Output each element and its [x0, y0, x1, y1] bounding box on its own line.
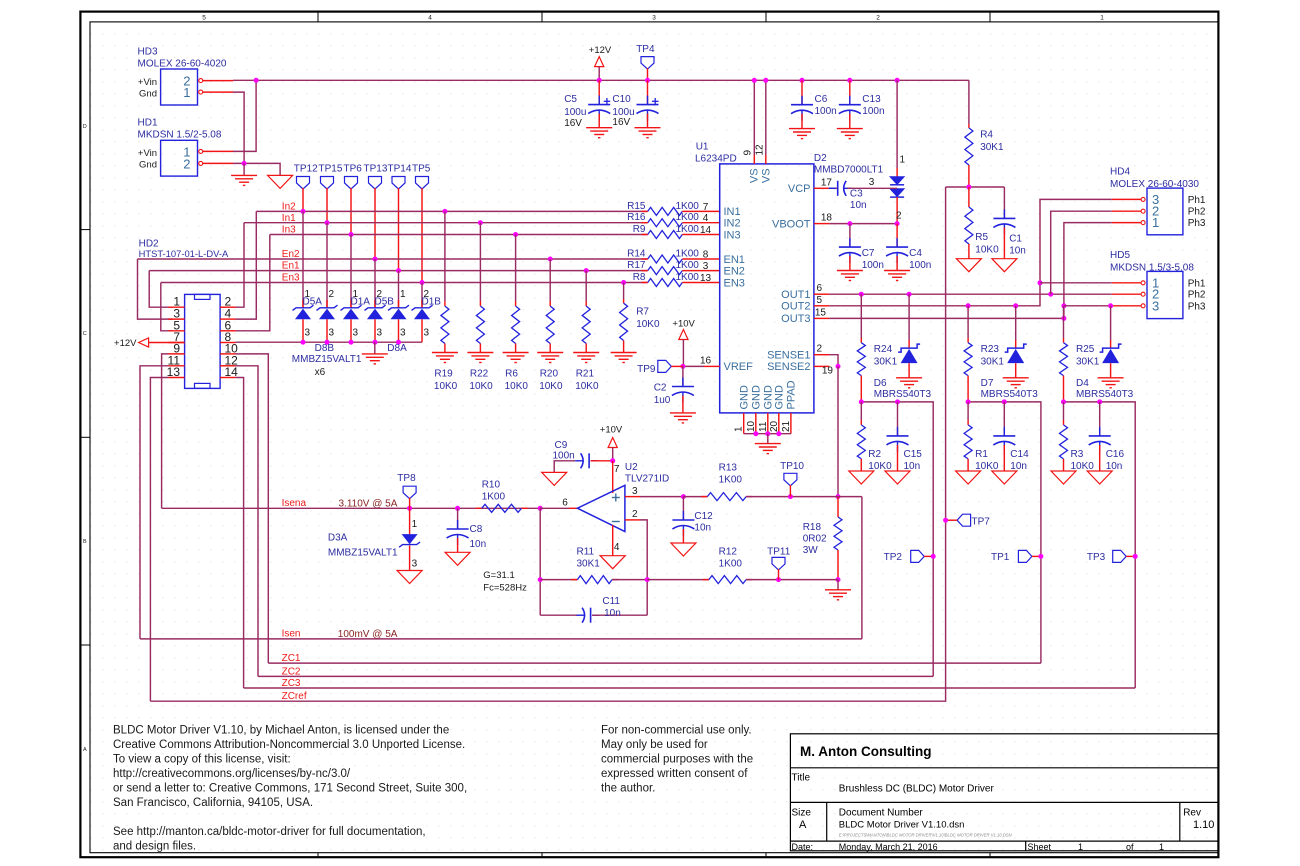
- svg-text:MMBZ15VALT1: MMBZ15VALT1: [292, 354, 362, 365]
- svg-text:Isen: Isen: [282, 629, 301, 640]
- wire R14 to U1: [682, 258, 719, 260]
- junction TP3: [1133, 554, 1138, 559]
- wire TP15 down: [326, 188, 328, 223]
- svg-text:3: 3: [424, 328, 430, 339]
- junction joiner C14: [1002, 399, 1007, 404]
- junction zener col1 bus: [301, 340, 306, 345]
- wire R17 to U1: [682, 270, 719, 272]
- svg-text:100n: 100n: [862, 260, 884, 271]
- svg-text:10n: 10n: [1106, 461, 1123, 472]
- svg-text:Size: Size: [792, 808, 812, 819]
- svg-text:C3: C3: [850, 188, 863, 199]
- ground triangle R5: [956, 259, 981, 272]
- junction feedback right: [645, 577, 650, 582]
- svg-text:M. Anton Consulting: M. Anton Consulting: [800, 744, 931, 759]
- junction VREF: [680, 364, 685, 369]
- junction pin7: [610, 458, 615, 463]
- junction VBOOT C4: [895, 221, 900, 226]
- wire En1 bus: [149, 270, 648, 272]
- wire VREF line: [683, 365, 704, 367]
- wire TP12 down: [302, 188, 304, 211]
- svg-text:100n: 100n: [862, 106, 884, 117]
- junction joiner C16: [1097, 399, 1102, 404]
- svg-text:TP8: TP8: [397, 473, 416, 484]
- wire zener col4 to gnd bus: [374, 319, 376, 342]
- ground triangle R3: [1051, 471, 1076, 484]
- svg-text:En1: En1: [282, 261, 300, 272]
- test point TP5: [416, 177, 429, 190]
- wire SENSE down to R18: [837, 366, 839, 496]
- svg-text:R5: R5: [975, 232, 988, 243]
- wire C5 to gnd: [598, 114, 600, 128]
- resistor R22: [476, 306, 484, 343]
- wire En3 bus: [161, 282, 648, 284]
- ground striped U1: [755, 444, 781, 454]
- wire TP column TP6 to zener: [350, 235, 352, 308]
- svg-text:HD1: HD1: [138, 118, 158, 129]
- wire ZC1 line: [268, 662, 1041, 664]
- ground triangle C9: [542, 472, 567, 485]
- svg-text:In3: In3: [282, 225, 296, 236]
- test point TP8: [403, 486, 416, 499]
- svg-text:C4: C4: [909, 248, 922, 259]
- ground striped C2: [670, 413, 696, 423]
- wire zener col1 to gnd bus: [302, 319, 304, 342]
- resistor R10: [476, 507, 482, 509]
- svg-text:C5: C5: [564, 94, 577, 105]
- svg-text:3: 3: [632, 486, 638, 497]
- HD4 pin stubs: [1112, 198, 1141, 200]
- svg-text:1: 1: [1159, 842, 1164, 852]
- svg-text:R24: R24: [874, 344, 893, 355]
- capacitor C11: [540, 614, 578, 616]
- svg-text:C11: C11: [602, 596, 620, 607]
- wire R8 to U1: [682, 282, 719, 284]
- test point TP14: [392, 177, 405, 190]
- junction R19 top: [442, 209, 447, 214]
- wire to R12: [647, 579, 709, 581]
- svg-text:VBOOT: VBOOT: [772, 218, 811, 230]
- ground striped at HD1: [243, 163, 245, 175]
- svg-text:Fc=528Hz: Fc=528Hz: [483, 583, 527, 594]
- resistor R2: [860, 402, 862, 420]
- svg-text:IN3: IN3: [724, 229, 741, 241]
- wire D6 to gnd: [908, 363, 910, 378]
- U1 pin names left: [724, 206, 754, 373]
- svg-text:10K0: 10K0: [539, 381, 563, 392]
- joiner line R24 block: [861, 402, 933, 677]
- svg-text:TP6: TP6: [344, 164, 363, 175]
- ground triangle C12: [671, 543, 696, 556]
- wire zener col6 to gnd bus: [421, 319, 423, 342]
- svg-text:15: 15: [815, 307, 827, 318]
- HD2 right pin stubs: [220, 307, 235, 377]
- svg-text:May only be used for: May only be used for: [601, 739, 708, 751]
- svg-text:TP9: TP9: [637, 364, 656, 375]
- svg-text:GND: GND: [739, 385, 751, 410]
- svg-text:30K1: 30K1: [980, 142, 1004, 153]
- junction opamp input: [538, 506, 543, 511]
- svg-text:R7: R7: [636, 307, 649, 318]
- U1 VCP stub pin17: [814, 187, 830, 189]
- svg-text:10K0: 10K0: [975, 461, 999, 472]
- test point TP12: [297, 177, 310, 190]
- svg-text:18: 18: [821, 213, 833, 224]
- svg-text:R8: R8: [633, 272, 646, 283]
- svg-text:2: 2: [424, 289, 430, 300]
- ground triangle U2 pin4: [600, 556, 625, 569]
- wire C15 to gnd: [897, 445, 899, 471]
- HD2 left pin stubs: [169, 307, 185, 377]
- wire TP column TP14 to zener: [398, 271, 400, 307]
- resistor R1: [967, 402, 969, 420]
- junction R21 top: [584, 268, 589, 273]
- zener diode D5A row 2: [317, 305, 338, 310]
- svg-text:R11: R11: [577, 547, 595, 558]
- U1 VREF stub pin16: [704, 365, 720, 367]
- wire D4 column: [1110, 306, 1112, 340]
- wire R25 column: [1063, 306, 1065, 338]
- junction R4 node: [966, 185, 971, 190]
- capacitor C1: [1003, 187, 1005, 218]
- capacitor C4: [896, 224, 898, 248]
- svg-text:1K00: 1K00: [676, 212, 700, 223]
- ground striped C4: [884, 271, 910, 281]
- svg-text:10K0: 10K0: [434, 381, 458, 392]
- svg-text:10n: 10n: [470, 539, 487, 550]
- svg-text:C10: C10: [612, 94, 631, 105]
- zener diode D1B: [412, 305, 433, 310]
- HD1 pin 2 circle: [199, 161, 203, 165]
- junction SENSE node: [836, 364, 841, 369]
- resistor R6: [512, 306, 520, 343]
- junction rail D2: [895, 78, 900, 83]
- ground striped C5: [586, 128, 612, 138]
- wire R6 to ground: [515, 344, 517, 353]
- svg-text:100n: 100n: [815, 106, 837, 117]
- wire OUT3 line: [829, 317, 1064, 319]
- wire GND bus to ground: [767, 434, 769, 444]
- wire Isena line: [162, 507, 541, 509]
- junction In1/TP15: [325, 220, 330, 225]
- wire C4 to gnd: [896, 256, 898, 270]
- svg-text:TP5: TP5: [412, 164, 431, 175]
- wire En3 to HD2 pin5: [161, 283, 173, 331]
- svg-text:1K00: 1K00: [482, 492, 506, 503]
- svg-text:R12: R12: [719, 547, 738, 558]
- svg-text:See http://manton.ca/bldc-moto: See http://manton.ca/bldc-motor-driver f…: [113, 826, 426, 838]
- ground striped R19: [432, 353, 458, 363]
- svg-text:http://creativecommons.org/lic: http://creativecommons.org/licenses/by-n…: [113, 768, 351, 780]
- svg-text:In1: In1: [282, 213, 296, 224]
- resistor R24: [857, 343, 865, 376]
- junction HD1 gnd: [242, 161, 247, 166]
- svg-text:or send a letter to: Creative: or send a letter to: Creative Commons, 1…: [113, 783, 467, 795]
- wire OUT1 line: [829, 293, 1111, 295]
- wire C3 to D2 pin3: [847, 187, 897, 189]
- svg-text:MBRS540T3: MBRS540T3: [874, 389, 932, 400]
- svg-text:2: 2: [329, 289, 335, 300]
- ground striped D7: [1003, 378, 1029, 388]
- svg-text:TP4: TP4: [636, 44, 655, 55]
- test point TP10: [784, 473, 797, 486]
- node line R4/R5/C1: [946, 186, 1005, 188]
- junction feedback left: [538, 577, 543, 582]
- U1 OUT3 stub pin15: [814, 317, 830, 319]
- wire R2 to gnd: [860, 459, 862, 471]
- op-amp U2: [577, 485, 625, 531]
- connector HD2: [185, 294, 221, 388]
- svg-text:1: 1: [305, 289, 311, 300]
- svg-text:2: 2: [377, 289, 383, 300]
- wire pin7 into op-amp: [612, 461, 614, 493]
- svg-text:30K1: 30K1: [981, 357, 1005, 368]
- ground striped D4: [1098, 378, 1124, 388]
- svg-text:3: 3: [652, 15, 656, 22]
- junction En2/TP13: [373, 257, 378, 262]
- wire R22 column: [479, 223, 481, 301]
- svg-text:+12V: +12V: [114, 338, 137, 349]
- resistor R16: [648, 219, 683, 227]
- svg-text:16: 16: [700, 355, 712, 366]
- junction In3/TP6: [349, 232, 354, 237]
- wire HD2 pin12 to ZC2: [236, 366, 259, 677]
- svg-text:Ph2: Ph2: [1188, 207, 1206, 218]
- svg-text:10K0: 10K0: [469, 381, 493, 392]
- svg-text:C8: C8: [470, 524, 483, 535]
- junction rail C6: [800, 78, 805, 83]
- wire TP5 down: [421, 188, 423, 283]
- junction zener col3 bus: [349, 340, 354, 345]
- svg-text:R9: R9: [633, 224, 646, 235]
- svg-text:+10V: +10V: [672, 319, 695, 330]
- svg-text:2: 2: [632, 509, 638, 520]
- svg-text:100u: 100u: [564, 107, 586, 118]
- svg-text:Ph1: Ph1: [1188, 195, 1206, 206]
- svg-text:2: 2: [876, 15, 880, 22]
- wire D2 column top: [896, 80, 898, 168]
- svg-text:1: 1: [353, 289, 359, 300]
- ground striped C13: [837, 129, 863, 139]
- wire En2 to HD2 pin3: [138, 259, 173, 319]
- svg-text:1u0: 1u0: [654, 395, 671, 406]
- svg-text:3: 3: [869, 177, 875, 188]
- svg-text:C6: C6: [815, 94, 828, 105]
- svg-text:Isena: Isena: [282, 498, 307, 509]
- svg-text:D2: D2: [814, 153, 827, 164]
- svg-text:R20: R20: [540, 369, 559, 380]
- svg-text:OUT3: OUT3: [781, 313, 810, 325]
- svg-text:HTST-107-01-L-DV-A: HTST-107-01-L-DV-A: [139, 248, 229, 259]
- wire R23 column: [967, 306, 969, 338]
- capacitor C14: [1003, 402, 1005, 436]
- capacitor C8: [457, 508, 459, 529]
- svg-text:19: 19: [822, 366, 834, 377]
- junction Ph1 node: [1038, 280, 1043, 285]
- svg-text:R6: R6: [505, 369, 518, 380]
- svg-text:BLDC Motor Driver V1.10, by Mi: BLDC Motor Driver V1.10, by Michael Anto…: [113, 725, 449, 737]
- wire pin4 to gnd: [612, 525, 614, 556]
- svg-text:100n: 100n: [909, 260, 931, 271]
- ground striped C6: [789, 129, 815, 139]
- wire In1 bus: [244, 222, 648, 224]
- svg-text:21: 21: [781, 420, 792, 432]
- svg-text:D8B: D8B: [315, 343, 335, 354]
- svg-text:C2: C2: [654, 383, 667, 394]
- wire En1 to HD2 pin1: [149, 271, 173, 308]
- svg-text:x6: x6: [315, 367, 326, 378]
- junction OUT1 D6: [907, 292, 912, 297]
- wire TP7 vertical: [150, 187, 945, 701]
- svg-text:2: 2: [183, 157, 190, 172]
- svg-text:5: 5: [202, 15, 206, 22]
- resistor R23: [964, 343, 972, 376]
- svg-text:10n: 10n: [604, 608, 621, 619]
- svg-text:2: 2: [816, 344, 822, 355]
- svg-text:C15: C15: [904, 449, 923, 460]
- wire C2 to gnd: [682, 396, 684, 413]
- test point TP4: [641, 57, 654, 70]
- wire R20 column: [549, 259, 551, 301]
- svg-text:1K00: 1K00: [676, 224, 700, 235]
- wire HD3 Gnd down: [233, 92, 244, 163]
- capacitor C3: [829, 187, 837, 189]
- svg-text:TP15: TP15: [319, 164, 343, 175]
- svg-text:R23: R23: [981, 344, 1000, 355]
- ground striped D6: [896, 378, 922, 388]
- HD3 pin 1 stub: [203, 91, 233, 93]
- wire TP13 down: [374, 188, 376, 259]
- svg-text:MBRS540T3: MBRS540T3: [981, 389, 1039, 400]
- wire Ph3 segment: [1064, 305, 1111, 307]
- U1 pin names right: [767, 183, 811, 373]
- wire Ph1 to HD5 pin1: [1040, 282, 1112, 284]
- svg-text:Date:: Date:: [792, 842, 814, 852]
- svg-text:1.10: 1.10: [1193, 819, 1214, 831]
- resistor R15: [648, 207, 683, 215]
- junction rail C10: [645, 78, 650, 83]
- wire C8 to gnd: [457, 538, 459, 552]
- U1 OUT2 stub pin5: [814, 305, 830, 307]
- wire output to Isen: [861, 497, 863, 639]
- wire R22 to ground: [479, 344, 481, 353]
- svg-text:MMBZ15VALT1: MMBZ15VALT1: [328, 548, 398, 559]
- capacitor C16: [1099, 402, 1101, 436]
- wire zener col3 to gnd bus: [350, 319, 352, 342]
- wire C12 to gnd: [682, 529, 684, 543]
- svg-text:16V: 16V: [612, 117, 630, 128]
- wire R12 right: [746, 579, 838, 581]
- wire OUT2 line: [829, 283, 1040, 306]
- diode D7: [1005, 344, 1027, 352]
- resistor R20: [546, 306, 554, 343]
- wire zener col2 to gnd bus: [326, 319, 328, 342]
- svg-text:Ph3: Ph3: [1188, 301, 1206, 312]
- junction R18 top: [836, 494, 841, 499]
- connector HD3: [161, 69, 198, 105]
- svg-text:D8A: D8A: [387, 343, 407, 354]
- junction rail C13: [847, 78, 852, 83]
- svg-text:7: 7: [614, 464, 620, 475]
- wire TP column TP15 to zener: [326, 223, 328, 307]
- HD4 pin circles: [1141, 197, 1145, 201]
- svg-text:1: 1: [412, 519, 418, 530]
- svg-text:Ph1: Ph1: [1188, 278, 1206, 289]
- wire TP6 down: [350, 188, 352, 235]
- resistor R5: [965, 207, 973, 244]
- svg-text:1: 1: [900, 155, 906, 166]
- svg-text:of: of: [1126, 842, 1134, 852]
- svg-text:+12V: +12V: [589, 45, 612, 56]
- test point TP9: [658, 360, 672, 372]
- svg-text:1: 1: [400, 289, 406, 300]
- wire C7 to gnd: [849, 256, 851, 270]
- junction Ph3 HD5: [1061, 303, 1066, 308]
- wire C1 to gnd: [1003, 227, 1005, 258]
- wire R24 to joiner: [860, 376, 862, 402]
- svg-text:D6: D6: [874, 378, 887, 389]
- connector HD4: [1147, 188, 1183, 235]
- svg-text:20: 20: [769, 420, 780, 432]
- wire En2 bus: [138, 258, 648, 260]
- svg-text:VS: VS: [749, 168, 761, 183]
- wire In1 to HD2 pin2: [236, 223, 245, 308]
- svg-text:4: 4: [614, 542, 620, 553]
- resistor R4: [965, 128, 973, 165]
- svg-text:A: A: [83, 747, 87, 753]
- wire R19 column: [444, 211, 446, 301]
- svg-text:D: D: [83, 124, 87, 130]
- wire HD2 pin13 to ZCref: [150, 378, 168, 702]
- svg-text:R2: R2: [868, 449, 881, 460]
- ground striped C7: [837, 271, 863, 281]
- junction TP1: [1038, 554, 1043, 559]
- svg-text:In2: In2: [282, 201, 296, 212]
- ground striped R7: [611, 353, 637, 363]
- wire R23 to joiner: [967, 376, 969, 402]
- zener diode D5B: [365, 305, 386, 310]
- svg-text:G=31.1: G=31.1: [483, 570, 514, 581]
- resistor R3: [1063, 402, 1065, 420]
- svg-text:10K0: 10K0: [1071, 461, 1095, 472]
- wire R21 to ground: [585, 344, 587, 353]
- svg-text:2: 2: [896, 211, 902, 222]
- svg-text:TP13: TP13: [364, 164, 388, 175]
- svg-text:+Vin: +Vin: [138, 77, 157, 88]
- U1 GND pin stubs: [744, 413, 791, 434]
- test point TP7: [957, 514, 971, 526]
- resistor R12: [703, 579, 709, 581]
- svg-text:VS: VS: [761, 168, 773, 183]
- wire R25 to joiner: [1063, 376, 1065, 402]
- resistor R19: [441, 306, 449, 343]
- svg-text:3: 3: [305, 328, 311, 339]
- svg-text:3: 3: [412, 559, 418, 570]
- svg-text:R19: R19: [434, 369, 453, 380]
- junction C8: [455, 506, 460, 511]
- svg-text:1K00: 1K00: [676, 201, 700, 212]
- HD2 pin numbers: [167, 295, 239, 379]
- svg-text:1K00: 1K00: [719, 559, 743, 570]
- svg-text:PPAD: PPAD: [786, 380, 798, 409]
- junction rail HD3: [254, 78, 259, 83]
- wire HD4 pin2 riser: [1051, 211, 1112, 294]
- svg-text:11: 11: [758, 421, 769, 432]
- wire R21 column: [585, 271, 587, 301]
- wire R9 to U1: [682, 234, 719, 236]
- svg-text:IN2: IN2: [724, 218, 741, 230]
- svg-text:BLDC Motor Driver V1.10.dsn: BLDC Motor Driver V1.10.dsn: [839, 820, 965, 831]
